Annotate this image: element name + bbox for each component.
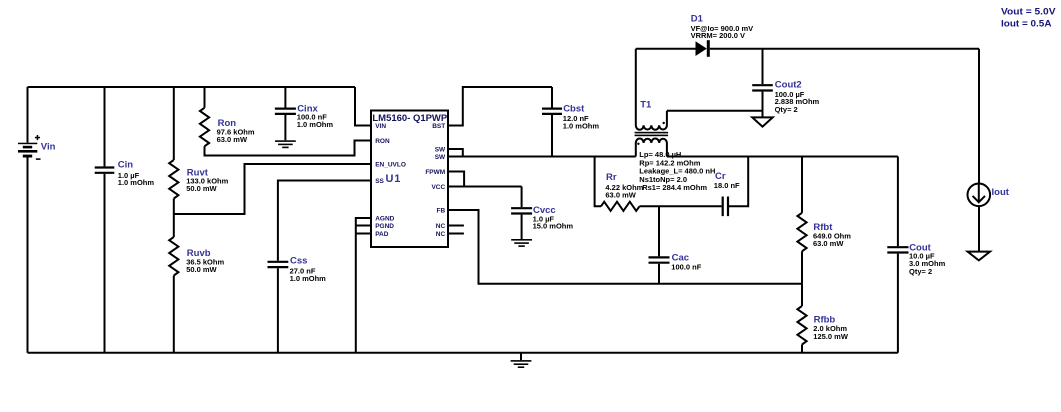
svg-text:FPWM: FPWM xyxy=(425,169,445,176)
wire Ruvt-Ruvb junction segment xyxy=(173,199,175,238)
svg-text:Qty= 2: Qty= 2 xyxy=(909,267,932,276)
wire FB net xyxy=(448,210,802,284)
wire Cin top riser xyxy=(104,87,106,166)
capacitor Cvcc xyxy=(511,205,573,231)
wire NC1 stub xyxy=(448,225,464,227)
svg-text:VRRM= 200.0 V: VRRM= 200.0 V xyxy=(691,31,745,40)
wire top Vin rail xyxy=(28,86,356,88)
svg-text:Vin: Vin xyxy=(41,141,56,152)
op-amp U1 LM5160-Q1PWP block xyxy=(371,111,448,248)
wire FPWM stub step xyxy=(448,172,464,187)
capacitor Cout2 xyxy=(752,80,819,115)
svg-text:BST: BST xyxy=(432,123,445,130)
wire ground bus to bottom rail xyxy=(355,217,357,353)
wire AGND stub xyxy=(356,217,371,219)
wire NC2 stub xyxy=(448,233,464,235)
wire Cr right to riser xyxy=(729,157,748,207)
wire VCC net xyxy=(448,186,522,188)
ground under Cvcc xyxy=(511,239,532,247)
capacitor Cbst xyxy=(542,103,599,130)
wire Cbst top riser xyxy=(551,87,553,108)
svg-text:NC: NC xyxy=(436,231,446,238)
wire battery top riser xyxy=(27,87,29,143)
wire BST net to Cbst xyxy=(448,87,552,126)
wire EN_UVLO net xyxy=(174,164,371,214)
svg-text:Cbst: Cbst xyxy=(563,103,585,114)
svg-text:63.0 mW: 63.0 mW xyxy=(217,135,248,144)
svg-text:EN_UVLO: EN_UVLO xyxy=(375,161,406,168)
svg-text:Rr: Rr xyxy=(606,172,617,183)
wire Vout1 rail xyxy=(667,156,898,158)
capacitor Cout xyxy=(887,242,945,276)
svg-text:Iout = 0.5A: Iout = 0.5A xyxy=(1001,18,1052,29)
battery Vin xyxy=(18,135,56,160)
wire Cbst bottom riser xyxy=(551,115,553,157)
svg-text:1.0 mOhm: 1.0 mOhm xyxy=(118,178,155,187)
wire Cout2 top riser xyxy=(762,49,764,84)
wire Ruvb bottom riser xyxy=(173,276,175,353)
svg-text:50.0 mW: 50.0 mW xyxy=(186,265,217,274)
wire bottom ground rail xyxy=(28,352,898,354)
capacitor Cinx xyxy=(275,104,333,129)
capacitor Cin xyxy=(95,160,155,188)
svg-text:Css: Css xyxy=(290,256,307,267)
svg-text:63.0 mW: 63.0 mW xyxy=(605,190,636,199)
resistor Rfbb xyxy=(797,306,848,345)
svg-text:Rs1= 284.4 mOhm: Rs1= 284.4 mOhm xyxy=(642,183,707,192)
svg-text:U1: U1 xyxy=(386,173,402,185)
wire Iout top riser xyxy=(978,49,980,184)
power ground under Iout xyxy=(968,252,990,261)
svg-text:1.0 mOhm: 1.0 mOhm xyxy=(563,121,600,130)
capacitor Cr xyxy=(714,171,740,216)
resistor Ruvb xyxy=(169,237,224,276)
svg-text:SW: SW xyxy=(435,146,446,153)
resistor Rr xyxy=(601,172,644,211)
wire battery bottom riser xyxy=(27,158,29,353)
svg-text:T1: T1 xyxy=(640,100,652,111)
wire Cvcc top riser xyxy=(521,187,523,208)
resistor Ruvt xyxy=(169,160,228,199)
wire Cvcc to ground xyxy=(521,215,523,239)
transformer T1 xyxy=(635,49,669,157)
svg-text:1.0 mOhm: 1.0 mOhm xyxy=(290,274,327,283)
wire snubber left riser xyxy=(595,157,601,207)
wire SW1 stub step xyxy=(448,149,463,157)
wire SS net to Css xyxy=(278,181,371,261)
svg-text:125.0 mW: 125.0 mW xyxy=(813,332,849,341)
wire Cout bottom riser xyxy=(897,254,899,353)
wire diode anode segment xyxy=(636,48,696,50)
svg-text:PAD: PAD xyxy=(375,231,389,238)
resistor Ron xyxy=(200,108,255,147)
svg-text:100.0 nF: 100.0 nF xyxy=(671,263,701,272)
wire VIN pin drop xyxy=(355,87,371,126)
wire Cout2 bottom to ground xyxy=(762,92,764,118)
wire Ron top riser xyxy=(204,87,206,108)
svg-text:VIN: VIN xyxy=(375,123,386,130)
wire Rr to Cr xyxy=(640,205,722,207)
svg-text:SW: SW xyxy=(435,154,446,161)
wire Cinx to ground xyxy=(284,115,286,140)
svg-text:Cin: Cin xyxy=(118,160,134,171)
wire Cac top riser xyxy=(658,206,660,256)
wire Css bottom riser xyxy=(277,268,279,353)
svg-text:15.0 mOhm: 15.0 mOhm xyxy=(533,222,574,231)
wire Cout top riser xyxy=(897,157,899,247)
svg-text:Qty= 2: Qty= 2 xyxy=(775,105,798,114)
svg-text:PGND: PGND xyxy=(375,223,394,230)
wire Cac bottom riser xyxy=(658,264,660,284)
wire Ruvt top riser xyxy=(173,87,175,160)
current source Iout xyxy=(968,184,1010,207)
svg-text:18.0 nF: 18.0 nF xyxy=(714,181,740,190)
resistor Rfbt xyxy=(797,213,851,252)
svg-text:FB: FB xyxy=(437,207,446,214)
diode D1 xyxy=(691,13,754,56)
wire PGND stub xyxy=(356,225,371,227)
svg-text:63.0 mW: 63.0 mW xyxy=(813,239,844,248)
wire Rfbt top riser xyxy=(801,157,803,213)
wire PAD stub xyxy=(356,233,371,235)
svg-text:SS: SS xyxy=(375,178,384,185)
capacitor Css xyxy=(268,256,327,284)
svg-text:NC: NC xyxy=(436,223,446,230)
wire Iout bottom riser xyxy=(978,206,980,252)
wire diode cathode to Iout xyxy=(710,48,979,50)
svg-text:VCC: VCC xyxy=(431,184,445,191)
wire Cin bottom riser xyxy=(104,174,106,353)
capacitor Cac xyxy=(649,252,702,271)
wire secondary return xyxy=(667,110,763,112)
svg-text:50.0 mW: 50.0 mW xyxy=(186,184,217,193)
ground under Cinx xyxy=(275,140,296,148)
wire Ron bottom to RON pin xyxy=(205,141,372,156)
svg-text:LM5160- Q1PWP: LM5160- Q1PWP xyxy=(372,113,447,123)
svg-text:AGND: AGND xyxy=(375,215,394,222)
svg-text:RON: RON xyxy=(375,138,390,145)
wire Cinx top riser xyxy=(284,87,286,108)
wire Rfbt bottom riser xyxy=(801,251,803,283)
power ground under Cout2 xyxy=(752,117,772,126)
wire Rfbt-Rfbb junction segment xyxy=(801,284,803,306)
svg-text:Vout = 5.0V: Vout = 5.0V xyxy=(1001,7,1056,18)
wire Rfbb bottom riser xyxy=(801,345,803,353)
wire SW rail xyxy=(448,156,636,158)
ground on bottom rail xyxy=(511,353,532,368)
svg-text:1.0 mOhm: 1.0 mOhm xyxy=(297,120,334,129)
T1 value labels xyxy=(639,150,715,192)
svg-text:D1: D1 xyxy=(691,13,704,24)
svg-text:Iout: Iout xyxy=(992,187,1010,198)
